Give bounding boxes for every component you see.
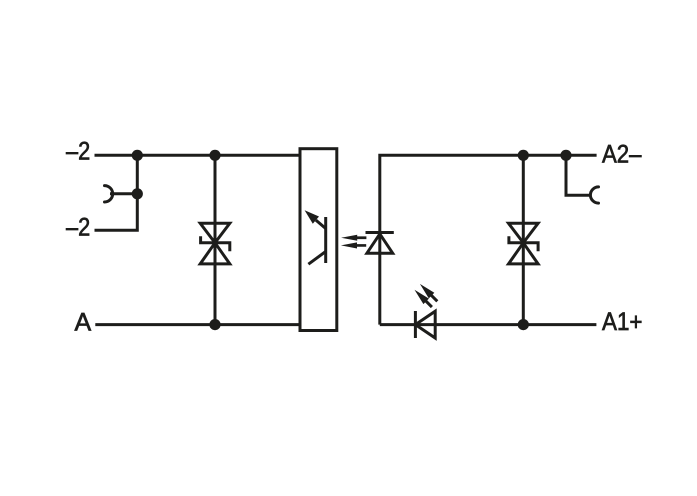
wire: right TVS branch vertical: [522, 155, 525, 324]
svg-text:–2: –2: [66, 214, 90, 242]
TVS suppressor diode D1 (left): [200, 223, 230, 264]
wire: bottom rail right (A1+ side): [380, 323, 597, 326]
junction dot: top rail / left TVS: [209, 150, 220, 161]
light arrow 1 (LED to transistor): [341, 235, 366, 241]
wire: top rail left (-2 to coupler box): [95, 154, 301, 157]
status LED D4: [415, 311, 435, 338]
wire: opto LED vertical + top rail right: [380, 155, 597, 324]
junction dot: top rail / right TVS: [518, 150, 529, 161]
svg-text:A1+: A1+: [602, 308, 643, 336]
junction dot: A2 tap: [560, 150, 571, 161]
wire: -2 jumper (vertical x137 + lower -2 stub): [95, 155, 138, 230]
optocoupler LED D3 (emitter diode): [366, 233, 394, 254]
terminal clamp arc (right): [590, 187, 598, 203]
light arrow 2 (LED to transistor): [341, 242, 366, 248]
wire: tap to clamp arc: [110, 192, 137, 195]
svg-text:–2: –2: [66, 138, 90, 166]
wire: A2 tap (vertical + horizontal to clamp arc): [566, 155, 590, 195]
terminal clamp arc (left): [105, 186, 113, 202]
phototransistor Q1 (inside box): [305, 210, 326, 264]
junction dot: top rail / jumper: [132, 150, 143, 161]
svg-text:A2–: A2–: [602, 140, 642, 168]
svg-text:A: A: [75, 308, 92, 336]
TVS suppressor diode D2 (right): [509, 223, 539, 264]
junction dot: clamp tap: [132, 188, 143, 199]
wire: left TVS branch vertical: [214, 155, 217, 324]
junction dot: bottom rail / right TVS: [518, 319, 529, 330]
wire: bottom rail left (A to coupler box): [95, 323, 300, 326]
optocoupler output box U1: [300, 149, 337, 331]
junction dot: bottom rail / left TVS: [209, 319, 220, 330]
status LED light arrow 1: [415, 290, 433, 308]
status LED light arrow 2: [420, 284, 438, 302]
